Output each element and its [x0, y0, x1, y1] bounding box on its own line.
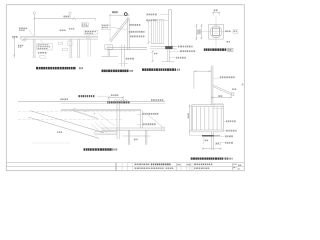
detail1 dim text: [64, 16, 70, 18]
detail5 post pair: [210, 66, 212, 105]
caption C4 detail4 title: [204, 48, 227, 51]
titleblock divider a: [114, 163, 116, 171]
detailM lower horizontal: [123, 135, 151, 137]
detailM bolt circle at crossing: [117, 128, 120, 131]
detail3 right dimension: [196, 24, 198, 40]
detail5 panel edges: [191, 105, 193, 132]
detail3 louver top line: [151, 19, 164, 21]
detail1 beam left end cap: [20, 36, 22, 39]
detail5 lower post: [211, 132, 213, 150]
detail1 leader to beam underside: [40, 40, 44, 43]
detail1 single stud lines right: [87, 39, 89, 57]
detail3 left dim: [148, 21, 150, 44]
detailM second line: [61, 102, 165, 104]
caption C6 detail5 title: [191, 158, 224, 160]
detail2 joist lower tie: [119, 63, 129, 65]
detail4 top dim text: [214, 9, 218, 11]
detailM dash line lower: [18, 118, 122, 120]
detail4 centerline horizontal: [201, 31, 231, 33]
detail2 bracket hatch: [105, 45, 109, 49]
detail3 beam bottom line: [150, 48, 177, 50]
titleblock cell text row2 left: [135, 168, 150, 170]
titleblock divider g: [180, 163, 182, 171]
detail2 label box left: [101, 24, 110, 29]
detail5 top leader: [213, 77, 219, 79]
titleblock divider j: [190, 163, 192, 171]
caption C5 detailM title: [84, 148, 113, 150]
detailM right lower horizontal: [160, 127, 162, 132]
detail1 label box below beam: [37, 43, 53, 50]
detail1 vertical guide left: [33, 14, 35, 36]
detail2 post inner line: [128, 20, 130, 51]
detail5 reference cross: [241, 84, 244, 86]
detail1 left dim text: [18, 45, 23, 46]
detail1 box on beam: [87, 36, 90, 39]
detail5 bottom rail: [192, 129, 224, 131]
detail1 tiny box lower: [40, 56, 45, 59]
detail3 beam top line: [150, 46, 177, 48]
titleblock drawing title row2: [151, 168, 164, 170]
detail1 stud pair: [77, 39, 79, 58]
detailM dash line upper: [18, 111, 135, 113]
detail2 leader from left box: [110, 27, 126, 30]
detail2 dim text above: [112, 11, 117, 13]
detail4 right label text: [225, 30, 230, 32]
detail1 main beam top line: [21, 35, 99, 37]
detail2 rail end cap: [128, 18, 129, 19]
detail2 top dimension line: [110, 14, 129, 16]
detail1 post right pair: [69, 39, 71, 58]
detail5 flange light right part: [214, 135, 220, 136]
detail1 under-beam ladder: [68, 41, 72, 46]
detail4 centerline vertical: [215, 17, 217, 47]
titleblock divider k: [192, 163, 194, 171]
detail3 leader text 2: [180, 50, 195, 52]
detail2 joist vertical pair: [121, 45, 123, 68]
detail5 anchor dim vertical: [203, 137, 205, 144]
titleblock right cell row1 label: [233, 164, 236, 165]
detail5 connection box on rail: [214, 104, 223, 109]
titleblock small cell text: [177, 164, 180, 165]
detail1 level mark circle left: [33, 12, 35, 14]
detail3 leader text 3: [176, 57, 186, 59]
detailM small label with tick: [60, 98, 68, 100]
detail4 circle pipe: [210, 26, 222, 38]
detail5 dim L horizontal: [194, 70, 211, 72]
detailM stringer bottom diagonal: [28, 117, 99, 138]
detailM lower crossing verticals B: [145, 130, 147, 144]
detail5 leader text 1: [226, 120, 236, 122]
detailM stringer hatch: [98, 114, 115, 126]
detail2 bracket stem: [107, 49, 109, 56]
detailM dark label left: [78, 95, 94, 97]
titleblock cell text row1 left: [135, 164, 150, 166]
detail3 dark plate fill: [165, 46, 172, 49]
detailM lower crossing verticals A: [127, 130, 129, 144]
detailM leader text right 2: [143, 123, 156, 125]
detail3 rail cap arc: [168, 9, 171, 13]
detail1 post bottom ticks: [32, 56, 36, 58]
detail2 leader text rail: [130, 24, 141, 26]
detail2 base line: [102, 56, 119, 58]
detail5 leader text 2: [226, 130, 237, 132]
titleblock divider h: [185, 163, 187, 171]
detail5 balusters: [192, 107, 194, 130]
detail5 panel top rail: [192, 104, 224, 106]
detail2 floor beam bottom: [107, 49, 147, 51]
titleblock divider c: [121, 163, 123, 171]
detail3 leader text 1: [178, 46, 193, 48]
detailM dark deck label: [107, 101, 129, 103]
detail5 stay rod upper: [213, 85, 232, 94]
detail5 dim L vertical: [193, 71, 195, 89]
detail4 top dim: [213, 12, 219, 14]
detailM right small label: [151, 99, 163, 101]
detail2 lower leader text: [126, 58, 134, 60]
detail2 sloped handrail lower line: [111, 19, 130, 43]
detail2 leader text post: [129, 31, 145, 33]
detailM faint bottom dim: [32, 142, 70, 144]
detailM deck bumps: [114, 100, 127, 101]
titleblock drawing title row1: [151, 164, 171, 166]
detailM rounded footer rect: [95, 131, 118, 135]
detailM right diagonal brace: [148, 115, 163, 128]
detail4 outer square: [209, 24, 224, 39]
detailM cross beam: [101, 127, 165, 129]
detail1 label box above beam right: [84, 30, 98, 34]
detail1 small box mid: [62, 48, 67, 51]
detail3 leader text second: [146, 19, 156, 21]
sheet border frame: [6, 5, 244, 171]
detail5 leader text 4: [225, 142, 233, 144]
detail3 louver left edge: [150, 20, 152, 44]
detailM footer inner line: [96, 132, 117, 134]
caption C2 detail2 title: [102, 70, 129, 73]
detail1 left margin mark: [12, 36, 17, 38]
detail3 leader text top: [147, 14, 157, 16]
caption C1 detail1 title: [36, 67, 76, 70]
detail1 post left pair: [32, 39, 34, 58]
detail5 ground line left: [190, 135, 202, 137]
detail2 sloped handrail upper line: [110, 18, 129, 41]
detail2 base bracket outline: [105, 45, 113, 49]
detailM leader from dark label: [97, 95, 107, 97]
detail2 post outer line: [127, 19, 129, 51]
detail2 circled mark dark: [124, 13, 127, 16]
detail5 rod label: [232, 88, 236, 90]
detail1 leader from label box: [29, 30, 34, 37]
detailM leader text right 1: [143, 113, 159, 115]
titleblock divider right cell: [232, 163, 234, 171]
detail3 lower-left dim: [152, 51, 154, 63]
detail3 hanger bottom tick: [162, 61, 175, 63]
detail4 small text below: [226, 41, 230, 43]
titleblock right cell sheet no: [238, 165, 241, 166]
detail1 small text above beam a: [60, 30, 66, 31]
detail3 louver vertical lines: [152, 20, 154, 44]
detail5 base flange dark: [202, 135, 214, 137]
detail5 bottom label box: [215, 142, 220, 144]
titleblock divider i: [188, 163, 190, 171]
titleblock right cell row2 label: [233, 167, 236, 168]
detail1 left dimension line: [13, 37, 15, 59]
detail1 vertical guide right: [69, 14, 71, 18]
detailM post pair: [116, 104, 118, 139]
detailM top dim: [108, 96, 124, 98]
detail3 hanger vertical pair: [167, 49, 169, 61]
detail5 bottom dim of top part: [211, 96, 231, 98]
detail4 inner square: [212, 28, 219, 35]
detail2 dim extension left: [109, 15, 111, 40]
detail2 floor beam top: [107, 46, 147, 48]
titleblock scale-date text row1: [194, 164, 212, 166]
detail2 leader text third: [130, 36, 144, 38]
detail5 left dim: [189, 105, 191, 136]
detail1 end hatch block: [22, 38, 25, 41]
detail3 post pair below cap: [167, 13, 169, 47]
detail5 stay rod lower: [213, 87, 232, 96]
detail5 leader text 3: [225, 135, 233, 137]
detailM right end vertical: [164, 127, 166, 132]
detail1 level mark circle right: [69, 12, 71, 14]
titleblock divider d: [126, 163, 128, 171]
detail1 under-beam small box: [58, 42, 62, 44]
detailM vertical right of post: [139, 111, 141, 128]
detailM small plus marks: [74, 108, 76, 110]
titleblock divider f: [175, 163, 177, 171]
titleblock middle rule: [6, 166, 244, 168]
detailM bottom-left tiny text: [57, 131, 62, 133]
detailM lower dim text: [134, 139, 138, 141]
detail1 small text above beam b: [69, 28, 75, 29]
titleblock divider e: [132, 163, 134, 171]
detail4 left dim: [201, 24, 203, 39]
detail1 top dimension line: [34, 18, 96, 20]
detail3 louver bottom line: [151, 43, 164, 45]
detailM top long line: [18, 101, 165, 103]
detailM slab bend diagonal pair: [72, 110, 98, 119]
caption C3 detail3 title: [142, 68, 176, 71]
detail1 small text below box: [38, 52, 47, 54]
detail1 small label box right of dim: [82, 23, 89, 27]
titleblock scale-date text row2: [194, 168, 209, 170]
detail4 right boxed label: [233, 30, 237, 34]
titleblock right cell row2 val: [238, 168, 240, 169]
detail1 main beam mid line: [21, 37, 99, 39]
detail1 main beam bottom line: [21, 38, 99, 40]
titleblock top rule: [6, 162, 244, 164]
detail1 label box top-left: [19, 28, 27, 30]
detail5 bottom dim: [202, 148, 222, 150]
detailM stringer top diagonal: [30, 111, 104, 133]
detail5 rod end fitting: [231, 93, 234, 96]
detailM third line partial: [61, 108, 141, 110]
titleblock divider b: [116, 163, 118, 171]
